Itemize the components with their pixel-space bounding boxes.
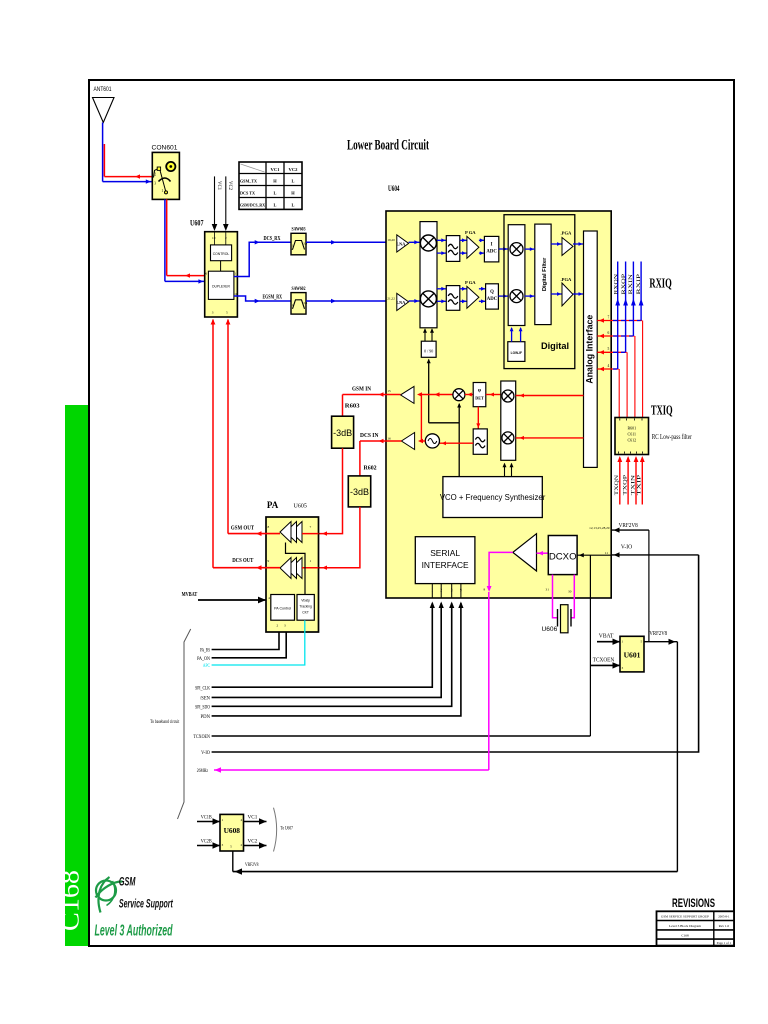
svg-text:VRF2V8: VRF2V8 <box>245 862 259 868</box>
wire LO to TX mixer and synthesizer <box>458 404 460 477</box>
svg-text:1: 1 <box>162 189 164 193</box>
filter SAW602 <box>291 293 306 315</box>
svg-text:REVISIONS: REVISIONS <box>672 896 715 910</box>
wire digital mixer I to filter <box>525 248 535 250</box>
wire V-IO rail <box>212 555 699 752</box>
svg-text:L: L <box>274 203 277 208</box>
attenuator -3dB R603 <box>332 416 354 448</box>
svg-text:0 / 90: 0 / 90 <box>424 348 433 353</box>
svg-text:RXQN: RXQN <box>615 273 620 294</box>
svg-text:6: 6 <box>608 331 610 335</box>
wire mixer to filter I pair <box>437 239 446 241</box>
svg-text:SPI_CLK: SPI_CLK <box>195 685 210 691</box>
svg-text:5: 5 <box>230 845 232 849</box>
wire mixer to filter Q pair <box>437 288 446 290</box>
svg-text:DET: DET <box>475 396 484 401</box>
svg-text:RXIN: RXIN <box>629 273 634 294</box>
svg-text:Lower Board Circuit: Lower Board Circuit <box>347 138 429 154</box>
svg-text:2: 2 <box>277 624 279 628</box>
wire PA_ON <box>212 632 287 658</box>
block PA Control <box>271 595 295 621</box>
svg-text:8: 8 <box>268 525 270 529</box>
svg-text:Vbatp: Vbatp <box>301 599 310 603</box>
svg-text:4: 4 <box>608 364 610 368</box>
svg-text:I: I <box>491 243 493 248</box>
IC U605 PA body <box>266 517 319 632</box>
svg-text:To baseband circuit: To baseband circuit <box>150 719 180 725</box>
svg-text:3: 3 <box>284 624 286 628</box>
svg-text:L: L <box>292 203 295 208</box>
amp PA GSM stages <box>291 522 302 543</box>
block Vbatp Tracking CKT <box>297 595 314 621</box>
IC U604 body <box>386 211 611 598</box>
mixer RX I <box>420 235 436 251</box>
wire LOW-IF to mixers <box>511 328 513 342</box>
filter block I <box>446 236 460 262</box>
IC U607 <box>205 232 238 317</box>
svg-text:H: H <box>291 191 295 196</box>
svg-text:GSM_TX: GSM_TX <box>240 179 258 184</box>
wire VC1 output <box>244 821 267 823</box>
svg-text:/SEN: /SEN <box>200 696 210 702</box>
svg-text:DCXO: DCXO <box>549 552 577 563</box>
svg-text:CKT: CKT <box>302 611 309 615</box>
revisions table <box>657 911 735 945</box>
mixer TX feedback I <box>502 390 514 402</box>
svg-text:VC1: VC1 <box>271 167 281 172</box>
svg-text:Page 1 of 1: Page 1 of 1 <box>717 941 732 945</box>
svg-text:2: 2 <box>154 173 156 177</box>
mixer RX Q <box>420 291 436 307</box>
svg-text:RXQP: RXQP <box>622 274 627 295</box>
U607 DUPLEXER block <box>208 271 234 299</box>
amp PGA I <box>467 236 479 258</box>
TX feedback mixer block <box>501 381 516 460</box>
amp LNA1 <box>397 235 409 252</box>
block I ADC <box>484 236 498 262</box>
svg-text:φ: φ <box>478 388 482 394</box>
svg-text:RC Low-pass filter: RC Low-pass filter <box>652 434 693 441</box>
amp PGA out I <box>562 238 573 256</box>
wire /SEN <box>212 603 442 697</box>
wire antenna to CON601 red TX <box>103 144 105 177</box>
svg-text:TXQP: TXQP <box>624 475 629 496</box>
svg-text:C611: C611 <box>628 432 637 437</box>
svg-text:VCO + Frequency Synthesizer: VCO + Frequency Synthesizer <box>440 493 546 502</box>
mixer TX feedback Q <box>502 432 514 444</box>
svg-text:SAW603: SAW603 <box>292 227 306 233</box>
wire SPI_SDO <box>212 603 452 706</box>
wire DCXO to buffer <box>537 552 549 554</box>
wire 0/90 to RX mixers <box>424 329 426 341</box>
mixer digital Q <box>510 290 523 303</box>
wire VC2 output <box>244 845 267 847</box>
svg-text:15: 15 <box>387 389 391 393</box>
svg-text:VC1B: VC1B <box>201 815 212 821</box>
svg-text:7: 7 <box>608 315 610 319</box>
svg-text:ADC: ADC <box>486 250 497 255</box>
svg-text:Q: Q <box>490 290 494 295</box>
block Digital Filter <box>535 224 551 325</box>
svg-text:7: 7 <box>310 525 312 529</box>
svg-text:PA_ON: PA_ON <box>197 656 210 662</box>
svg-text:TXQN: TXQN <box>615 474 620 495</box>
svg-text:MVBAT: MVBAT <box>182 591 198 598</box>
wire antenna to CON601 blue RX <box>102 123 104 182</box>
wire interface to TX mixer Q <box>516 437 584 439</box>
wire V-IO into U604 pin 11 <box>612 554 699 556</box>
wire loop filter to VCO <box>439 442 473 444</box>
wire LO to 0/90 <box>428 360 430 423</box>
wire -3dB to PA GSM input <box>319 448 343 533</box>
svg-text:ADC: ADC <box>487 297 498 302</box>
wire V-IO inside to DCXO <box>577 554 611 556</box>
wire TCXOEN inside U604 <box>589 555 591 736</box>
wire synthesizer LO to feedback mixers <box>504 464 506 477</box>
svg-text:LNA: LNA <box>396 300 405 305</box>
wire SAW602 to U604 LNA <box>306 300 386 302</box>
svg-text:2005-8-1: 2005-8-1 <box>718 915 730 919</box>
connector CON601 <box>152 152 179 199</box>
amp LNA2 <box>397 293 409 310</box>
wire U607 to SAW602 EGSM_RX <box>234 296 291 301</box>
svg-text:INTERFACE: INTERFACE <box>422 560 469 570</box>
svg-text:VRF2V8: VRF2V8 <box>649 631 667 637</box>
wire -3dB R602 to PA pin 1 inside <box>302 567 319 569</box>
svg-text:8: 8 <box>484 588 486 592</box>
wire DCS OUT <box>213 567 280 569</box>
TXIQ stubs into filter <box>619 458 621 505</box>
wire VCO output to TX buffers <box>421 440 425 442</box>
svg-text:PDN: PDN <box>201 714 211 720</box>
svg-text:To U607: To U607 <box>280 827 293 832</box>
wire VRF2V8 into U604 <box>612 529 649 531</box>
wire APC <box>212 620 305 665</box>
wire PA coupler to tracking <box>286 543 306 595</box>
svg-text:RXIP: RXIP <box>637 274 642 295</box>
amp TX GSM buffer <box>401 386 415 403</box>
block phase detector <box>473 383 486 407</box>
TXIQ red lines down to RC filter <box>642 321 644 418</box>
wire PA_BS <box>212 632 279 650</box>
svg-text:Service Support: Service Support <box>119 899 174 911</box>
block SERIAL INTERFACE <box>415 537 475 584</box>
svg-text:U604: U604 <box>388 184 400 193</box>
svg-text:4: 4 <box>268 596 270 600</box>
amp PGA out Q <box>562 283 573 306</box>
wire -3dB R603 to PA pin 7 inside <box>302 533 319 535</box>
serial interface pins 1 2 3 9 <box>431 584 433 598</box>
svg-text:TXIQ: TXIQ <box>651 403 673 418</box>
svg-text:TCXOEN: TCXOEN <box>593 658 615 664</box>
svg-text:DCS OUT: DCS OUT <box>232 557 254 564</box>
wire MVBAT into PA pin 4 <box>198 599 266 601</box>
svg-text:CON601: CON601 <box>152 145 178 152</box>
svg-text:VC1: VC1 <box>248 815 258 821</box>
wire Q ADC to digital mixer <box>498 295 508 297</box>
digital mixer block <box>508 225 525 326</box>
svg-text:TXIN: TXIN <box>631 474 636 495</box>
attenuator -3dB R602 <box>348 476 370 507</box>
svg-text:C612: C612 <box>627 438 636 443</box>
wire GSM OUT up to U607 pin 5 <box>227 320 229 534</box>
wire U607 to SAW603 DCS_RX <box>234 242 291 276</box>
wire -3dB to PA DCS input <box>319 507 360 568</box>
svg-text:GSM IN: GSM IN <box>352 386 371 393</box>
RXIQ blue lines with up arrows <box>640 262 642 321</box>
svg-text:P GA: P GA <box>465 280 476 285</box>
svg-text:SAW602: SAW602 <box>292 286 306 292</box>
svg-text:GSM SERVICE SUPPORT GROUP: GSM SERVICE SUPPORT GROUP <box>661 915 709 919</box>
svg-text:V-IO: V-IO <box>621 544 633 551</box>
svg-text:Rev 1.0: Rev 1.0 <box>719 924 730 928</box>
svg-text:VC1: VC1 <box>216 181 221 191</box>
amp PA DCS stages <box>291 558 302 579</box>
mixer TX offset <box>453 389 465 401</box>
crystal U606 <box>557 609 559 627</box>
svg-text:TCXOEN: TCXOEN <box>193 734 210 740</box>
svg-text:31: 31 <box>546 588 550 592</box>
svg-text:LNA: LNA <box>396 241 405 246</box>
svg-text:SPI_SDO: SPI_SDO <box>195 705 210 711</box>
svg-text:Level 3 Authorized: Level 3 Authorized <box>95 923 174 940</box>
wire DCS IN down to -3dB <box>359 441 361 476</box>
wire GSM IN down to -3dB <box>342 395 344 417</box>
svg-text:26MHz: 26MHz <box>197 768 209 774</box>
svg-text:1: 1 <box>310 559 312 563</box>
svg-text:16: 16 <box>387 436 391 440</box>
IC U608 <box>220 814 244 851</box>
wire GSM OUT <box>228 533 280 535</box>
svg-text:3: 3 <box>451 589 453 593</box>
svg-text:9: 9 <box>268 559 270 563</box>
wire VRF2V8 up to U608 <box>232 851 234 872</box>
to U607 bracket <box>274 808 277 852</box>
svg-text:L: L <box>292 179 295 184</box>
page border frame <box>89 80 734 946</box>
svg-text:U607: U607 <box>190 219 204 228</box>
svg-text:.PGA: .PGA <box>561 277 573 282</box>
svg-text:1: 1 <box>622 640 624 644</box>
svg-text:3: 3 <box>622 666 624 670</box>
svg-text:5: 5 <box>641 640 643 644</box>
svg-text:TXIP: TXIP <box>638 475 643 496</box>
block Q ADC <box>486 284 499 309</box>
svg-text:DCS TX: DCS TX <box>240 191 256 196</box>
wire VBAT into U601 <box>597 641 620 643</box>
svg-text:VC2B: VC2B <box>201 839 212 845</box>
RX quadrature mixer block <box>420 222 437 328</box>
RC low-pass filter R601 C611 C612 <box>615 418 649 455</box>
wire mixer to phase detector <box>465 394 473 396</box>
svg-text:5: 5 <box>226 311 228 315</box>
wire buffer to 26MHz pin <box>489 552 513 586</box>
svg-text:-3dB: -3dB <box>350 487 369 497</box>
table VC1 VC2 logic levels <box>239 162 302 209</box>
svg-text:6: 6 <box>206 272 208 276</box>
svg-text:1: 1 <box>431 589 433 593</box>
oscillator VCO <box>425 434 439 448</box>
svg-text:DCS IN: DCS IN <box>360 432 379 439</box>
wire control to duplexer <box>220 261 222 272</box>
svg-text:-3dB: -3dB <box>333 428 352 438</box>
svg-text:L: L <box>274 191 277 196</box>
svg-text:Level 3 Block Diagram: Level 3 Block Diagram <box>669 924 701 928</box>
svg-text:U601: U601 <box>624 651 641 660</box>
svg-text:P GA: P GA <box>465 230 476 235</box>
svg-text:APC: APC <box>203 663 210 669</box>
wire CON601 to U607 red <box>166 199 168 275</box>
svg-text:R601: R601 <box>627 426 636 431</box>
block VCO + Frequency Synthesizer <box>443 477 542 518</box>
wire PGA to Q ADC pair <box>479 288 486 290</box>
block Digital section <box>504 215 575 369</box>
svg-text:Digital: Digital <box>541 341 569 351</box>
wire PGA out Q to interface <box>573 293 584 295</box>
svg-text:U608: U608 <box>224 826 241 835</box>
wire VRF2V8 output <box>644 641 677 643</box>
svg-text:1: 1 <box>222 818 224 822</box>
green side bar <box>65 405 88 946</box>
CON601 switch symbol <box>157 167 160 170</box>
svg-text:3: 3 <box>222 843 224 847</box>
svg-text:GSM OUT: GSM OUT <box>231 525 255 532</box>
wire TX box to phase detector <box>486 394 501 396</box>
svg-text:CONTROL: CONTROL <box>213 252 230 256</box>
block 0/90 phase splitter <box>421 341 436 357</box>
wire TCXOEN branch to U601 <box>590 664 620 666</box>
svg-text:Tracking: Tracking <box>299 605 312 609</box>
svg-text:U605: U605 <box>294 504 307 510</box>
wire VRF2V8 down right side <box>676 642 678 872</box>
wire TX row1 mixer chain <box>421 394 453 396</box>
svg-text:9: 9 <box>460 589 462 593</box>
svg-text:DUPLEXER: DUPLEXER <box>212 285 230 289</box>
filter block Q <box>446 286 460 311</box>
to baseband brace <box>178 629 191 819</box>
filter SAW603 <box>291 233 306 255</box>
wire filter to PGA I pair <box>460 239 467 241</box>
svg-text:C168: C168 <box>681 933 689 937</box>
svg-text:PA: PA <box>267 500 279 510</box>
wire SPI_CLK <box>212 603 433 687</box>
mixer digital I <box>510 243 523 256</box>
wire DCXO to crystal right <box>571 575 574 618</box>
svg-text:VRF2V8: VRF2V8 <box>619 522 638 529</box>
wire PGA to I ADC pair <box>479 239 485 241</box>
svg-text:10: 10 <box>212 236 216 240</box>
wire VC2B into U608 <box>197 845 220 847</box>
svg-text:R603: R603 <box>345 403 360 410</box>
svg-text:V-IO: V-IO <box>201 750 210 756</box>
svg-text:11: 11 <box>605 551 609 555</box>
amp PGA Q <box>467 286 479 308</box>
amp TX DCS buffer <box>401 433 414 450</box>
wire VRF2V8 bottom rail <box>233 871 678 873</box>
wire phase det to loop filter <box>477 407 479 429</box>
wire PGA out I to interface <box>573 243 584 245</box>
wire TCXOEN rail <box>212 735 591 737</box>
svg-text:GSM/DCS_RX: GSM/DCS_RX <box>240 203 265 208</box>
svg-text:3: 3 <box>212 311 214 315</box>
logo globe <box>96 877 123 913</box>
svg-text:DCS_RX: DCS_RX <box>264 235 281 242</box>
wire SAW603 to U604 LNA <box>306 241 386 243</box>
svg-text:C168: C168 <box>56 870 85 931</box>
svg-text:R602: R602 <box>364 465 377 472</box>
svg-text:Digital Filter: Digital Filter <box>542 257 548 291</box>
svg-text:LOW-IF: LOW-IF <box>511 351 522 355</box>
svg-text:5: 5 <box>608 347 610 351</box>
IC U601 <box>620 636 644 672</box>
svg-text:Analog Interface: Analog Interface <box>585 315 595 384</box>
svg-text:ANT601: ANT601 <box>94 86 112 93</box>
wire VC1B into U608 <box>197 821 220 823</box>
wire VRF2V8 vertical to U601 <box>648 530 650 642</box>
wire DCS OUT up to U607 pin 3 <box>212 320 214 568</box>
svg-text:SERIAL: SERIAL <box>430 548 460 558</box>
wire 26MHz <box>214 769 489 771</box>
block DCXO <box>548 536 577 575</box>
svg-text:2: 2 <box>440 589 442 593</box>
antenna ANT601 <box>93 98 115 123</box>
CON601 coax symbol <box>166 162 175 171</box>
svg-text:PA_BS: PA_BS <box>200 648 210 654</box>
wire I ADC to digital mixer <box>499 248 508 250</box>
svg-text:GSM: GSM <box>119 877 136 889</box>
svg-text:2: 2 <box>241 843 243 847</box>
wire GSM IN out of U604 <box>343 394 401 396</box>
net VC1 arrow into U607 <box>214 176 216 226</box>
wire DCXO to crystal left <box>553 575 558 618</box>
wire digital mixer Q to filter <box>525 295 535 297</box>
svg-text:PA Control: PA Control <box>274 607 291 611</box>
loop filter block <box>473 429 487 454</box>
wire DCS IN out of U604 <box>360 440 402 442</box>
wire TX row1 to row2 link <box>420 395 422 442</box>
svg-text:VC2: VC2 <box>248 839 258 845</box>
svg-text:U606: U606 <box>542 626 558 633</box>
wire interface to TX mixer I <box>516 395 584 397</box>
svg-text:VBAT: VBAT <box>599 634 614 640</box>
wire filter to PGA out I <box>551 243 562 245</box>
block Analog Interface <box>584 231 598 467</box>
svg-text:H: H <box>273 179 277 184</box>
svg-text:1: 1 <box>234 272 236 276</box>
wire PDN <box>212 603 461 716</box>
net VC2 arrow into U607 <box>225 176 227 226</box>
wire CON601 to U607 blue <box>164 199 166 281</box>
wire filter to PGA out Q <box>551 293 562 295</box>
svg-text:VC2: VC2 <box>227 181 232 191</box>
svg-text:RXIQ: RXIQ <box>649 276 671 291</box>
wire filter to PGA Q pair <box>460 288 467 290</box>
svg-text:3: 3 <box>154 182 156 186</box>
svg-text:VC2: VC2 <box>289 167 299 172</box>
svg-text:EGSM_RX: EGSM_RX <box>263 294 283 301</box>
svg-text:4: 4 <box>241 818 243 822</box>
U607 CONTROL block <box>211 245 232 261</box>
svg-text:.PGA: .PGA <box>561 231 573 236</box>
svg-text:30: 30 <box>568 590 572 594</box>
block LOW-IF <box>508 342 525 362</box>
buffer 26MHz amp <box>513 534 537 571</box>
